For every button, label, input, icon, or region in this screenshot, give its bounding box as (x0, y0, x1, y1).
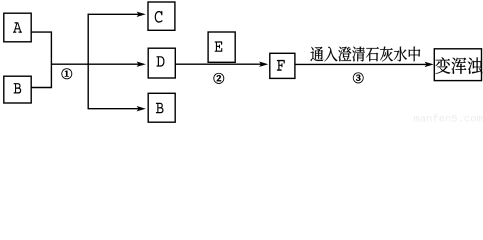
label 通入澄清石灰水中 (310, 47, 420, 62)
arrow ② from box D to box F (175, 62, 268, 67)
arrow ① from junction to box D (51, 62, 145, 67)
arrow ③ from box F to result box (295, 62, 434, 67)
box D (148, 48, 175, 78)
label ② (step 2) (214, 73, 224, 84)
svg-text:manfen5.com: manfen5.com (414, 113, 483, 123)
box B (bottom) (148, 93, 175, 122)
label ③ (step 3) (353, 73, 363, 84)
box E (208, 32, 235, 62)
branch vertical wire (87, 14, 89, 110)
box 变浑浊 (result) (434, 49, 482, 81)
box F (270, 53, 295, 78)
junction vertical wire (50, 31, 52, 88)
arrow to box C (88, 12, 146, 17)
arrow to bottom box B (88, 106, 146, 111)
wire from box B to junction (31, 87, 51, 89)
box C (148, 2, 175, 30)
box B (4, 76, 31, 103)
box A (4, 13, 31, 42)
wire from box A to junction (31, 31, 51, 33)
label ① (step 1) (62, 69, 72, 80)
